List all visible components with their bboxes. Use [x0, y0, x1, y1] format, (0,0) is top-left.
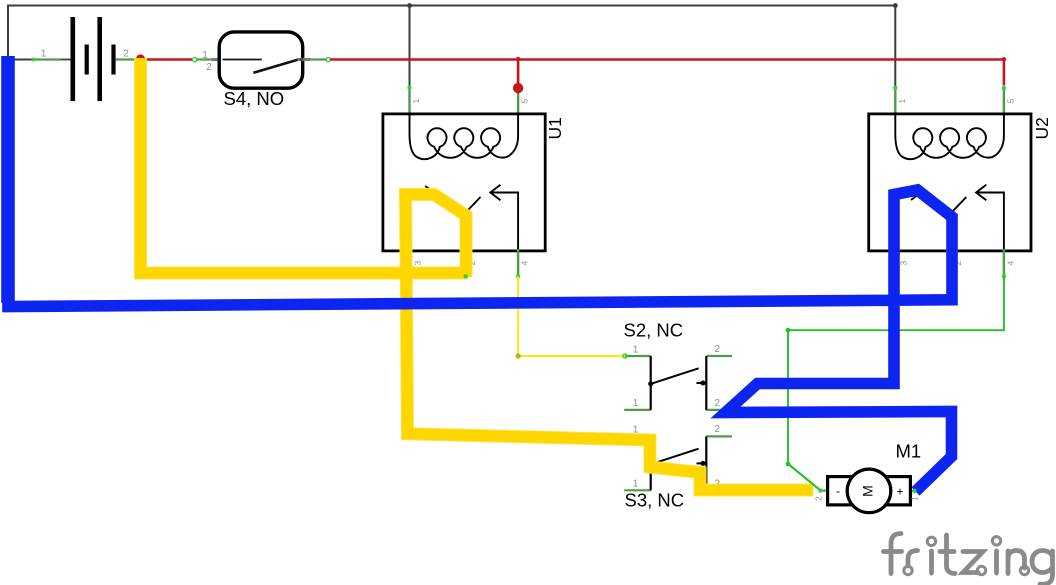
svg-text:M1: M1 [896, 441, 922, 462]
wire: thick yellow U1 pin2 loop to S3 to motor minus [406, 195, 814, 491]
svg-text:1: 1 [633, 398, 639, 409]
svg-text:S3, NC: S3, NC [625, 490, 685, 511]
battery pin 1 lead [61, 59, 71, 61]
wire: top black net from battery minus to relay pin1 drops [8, 6, 895, 60]
logo ring i dot [927, 537, 935, 545]
junction dot at top wire / U1 drop [407, 3, 412, 8]
bendpoint green dot 1 [786, 328, 791, 333]
relay NC contact (pin3) [411, 193, 424, 249]
relay pin4 dot [516, 274, 520, 278]
svg-text:U2: U2 [1032, 117, 1052, 139]
logo letter g [1032, 551, 1053, 585]
battery pin 1 stub [33, 58, 61, 60]
S4 pin1 green stub [197, 58, 212, 60]
wire: green diagonal over yellow to motor minus [788, 464, 821, 491]
svg-text:S4, NO: S4, NO [224, 88, 285, 109]
relay body box [383, 114, 545, 251]
wire: red battery+ to S4 pin1 [134, 58, 192, 61]
svg-text:3: 3 [413, 261, 423, 266]
relay common lever (pin2) [466, 197, 481, 249]
junction small red dot at U1 pin5 tee [516, 57, 520, 61]
relay NO contact (pin4) [491, 193, 518, 250]
svg-text:1: 1 [41, 49, 47, 60]
S2 left pole [650, 356, 652, 410]
relay pin5 dot [516, 86, 520, 90]
svg-text:+: + [896, 485, 903, 499]
relay pin3 bottom stub [410, 249, 412, 276]
switch S3 instance [624, 424, 732, 490]
svg-text:2: 2 [715, 344, 721, 355]
wire: battery minus lead [8, 59, 33, 61]
battery pin 2 stub [116, 58, 134, 60]
logo letter i2 [994, 551, 999, 573]
logo letter z [963, 552, 983, 573]
battery plate short 2 [111, 45, 115, 75]
S4 lever [253, 59, 299, 73]
relay pin5 stub [517, 88, 519, 116]
relay pin2 dot [464, 274, 468, 278]
S2 pin1 bottom stub [624, 409, 651, 411]
S4 pin2 gray stub [298, 58, 311, 61]
wire: red drop to U1 pin5 [517, 60, 520, 85]
bendpoint dot thin yellow [515, 353, 520, 358]
S4 pin2 inner dot [300, 58, 304, 62]
big red junction dot at U1 pin5 [513, 83, 523, 93]
svg-text:S2, NC: S2, NC [624, 320, 684, 341]
S2 right pole [705, 356, 707, 410]
junction dot at top wire / U2 drop [893, 3, 898, 8]
wire: drop to U2 pin1 [894, 6, 896, 88]
bendpoint green dot 2 [786, 462, 791, 467]
logo letter i [929, 551, 934, 573]
S2 pin1 top stub [625, 355, 651, 357]
U1 pin2 terminal dot over yellow [464, 274, 468, 278]
S2 lever [651, 368, 699, 384]
S4 body rounded box [219, 32, 303, 88]
svg-text:2: 2 [206, 62, 212, 73]
logo ring z [977, 566, 985, 574]
svg-text:4: 4 [520, 261, 530, 266]
logo letter r [908, 551, 918, 567]
S4 pin2 open ring [326, 58, 330, 62]
svg-text:1: 1 [910, 496, 920, 501]
svg-text:-: - [836, 484, 840, 498]
bendpoint red dot at U2 corner [1002, 57, 1007, 62]
relay coil [410, 115, 519, 160]
svg-text:1: 1 [411, 99, 421, 104]
M1 circle [847, 469, 891, 513]
junction big red dot at battery+ [136, 54, 145, 63]
relay pin1 stub [408, 88, 410, 116]
S2 pin2 bottom stub [706, 409, 732, 411]
wire: thick blue left vertical overlay [1, 56, 15, 303]
battery plate long 2 [97, 17, 102, 101]
S4 pin1 open ring [193, 58, 197, 62]
S4 pin1 gray stub [212, 58, 228, 61]
S2 contact tick [697, 382, 707, 384]
S2 lever junction dot [648, 381, 653, 386]
svg-text:2: 2 [715, 398, 721, 409]
svg-text:1: 1 [202, 50, 208, 61]
logo ring r [904, 566, 912, 574]
logo ring i2 dot [992, 537, 1000, 545]
battery plate long 1 [71, 17, 76, 101]
relay U1 (template also used for U2) [383, 86, 545, 279]
svg-text:U1: U1 [545, 117, 565, 139]
svg-text:2: 2 [814, 496, 824, 501]
logo ring n [1020, 566, 1028, 574]
S2 pin1 ring [623, 354, 627, 358]
motor plus pin dot [912, 489, 916, 493]
S2 contact dot [701, 381, 706, 386]
M1 pin plus stub [910, 490, 916, 492]
M1 body rect [828, 477, 911, 505]
wire: red S4 pin2 to U2 pin 5 [330, 58, 1004, 61]
S4 pin1 inner dot [219, 58, 223, 62]
svg-text:2: 2 [123, 49, 129, 60]
wire: thick yellow halo [141, 58, 814, 490]
wire: thin green U2 pin4 to motor minus [788, 277, 1004, 490]
pushbutton S4 [193, 32, 331, 109]
battery BAT1 [32, 17, 135, 101]
relay U2 instance [869, 86, 1031, 279]
svg-text:1: 1 [633, 344, 639, 355]
relay pin2 bottom stub [465, 249, 467, 276]
S4 fixed contact line [223, 59, 262, 61]
fritzing logo [884, 534, 1053, 585]
wire: thick blue battery- to U2 loop to motor plus [8, 56, 952, 492]
wire: drop to U1 pin1 [409, 6, 411, 88]
S4 pin2 green stub [310, 58, 326, 60]
relay pin4 bottom stub [517, 249, 519, 276]
wire: thin yellow U1 pin4 to S2 pin1 [518, 276, 625, 356]
motor M1 [814, 441, 922, 513]
logo letter t [947, 535, 956, 574]
switch S2 (template for S3) [624, 344, 732, 410]
svg-text:M: M [860, 485, 876, 497]
M1 pin minus stub [821, 490, 829, 492]
wire: red drop to U2 pin5 [1003, 60, 1006, 86]
relay pin1 dot [407, 86, 411, 90]
svg-text:5: 5 [520, 99, 530, 104]
logo letter f [891, 534, 901, 574]
wire: thick yellow battery+ to U1 pin2 [141, 58, 469, 273]
S2 pin2 top stub [706, 355, 732, 357]
logo letter n [1008, 551, 1025, 574]
motor minus pin dot [818, 488, 822, 492]
battery plate short 1 [85, 45, 89, 75]
